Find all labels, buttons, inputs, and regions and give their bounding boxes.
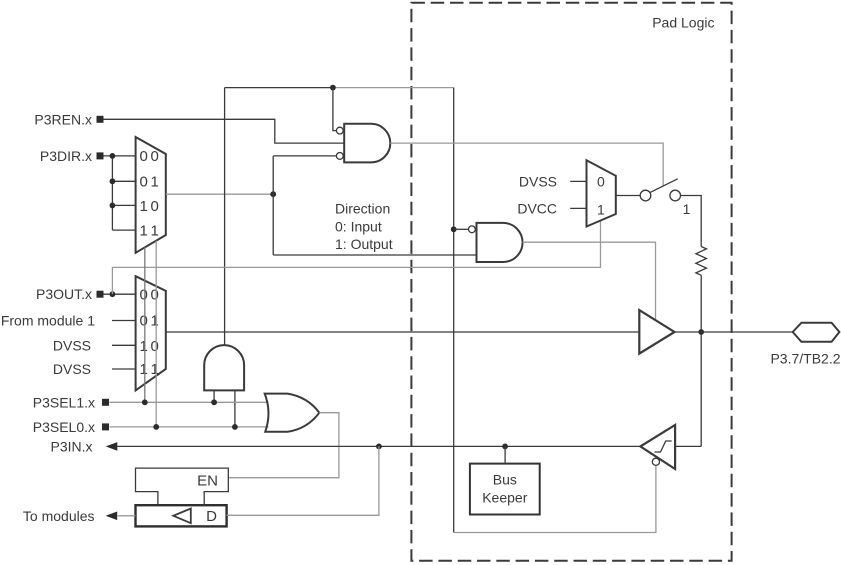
svg-text:Bus: Bus <box>493 472 517 488</box>
EN register box <box>136 468 229 505</box>
wire P3IN.x line (Schmitt output) <box>117 445 640 447</box>
svg-text:DVSS: DVSS <box>519 173 557 189</box>
switch contact left <box>640 190 651 201</box>
svg-text:DVSS: DVSS <box>53 338 91 354</box>
junction P3SEL0 at AND U5 <box>232 424 238 430</box>
wire U5 input B stub <box>234 390 236 427</box>
wire Bus Keeper stub <box>504 446 506 463</box>
switch contact right <box>670 190 681 201</box>
pin square P3SEL1.x <box>102 399 109 406</box>
wire From module 1 stub <box>112 320 136 322</box>
NAND U1 (3-input AND, bubbled inputs) body <box>344 124 390 163</box>
junction P3SEL0 at select vertical <box>153 424 159 430</box>
wire P3DIR.x stub to mux U3 input 00 <box>103 155 136 157</box>
wire DVSS stub to mux U7 <box>570 180 586 182</box>
bubble Schmitt enable <box>652 458 659 465</box>
wire top net to NAND U1 top bubble <box>333 88 337 131</box>
Pad Logic dashed boundary <box>411 3 731 561</box>
mux U3 direction-select body <box>136 137 166 253</box>
svg-text:From module 1: From module 1 <box>1 313 95 329</box>
wire DVSS stub row 10 <box>112 344 136 346</box>
wire switch to resistor <box>681 196 702 247</box>
junction P3IN at D register <box>376 444 382 450</box>
wire mux U4 output to output buffer <box>166 331 640 333</box>
wire P3SEL1 select vertical through muxes <box>144 247 146 402</box>
wire U5 input A stub <box>213 390 215 402</box>
pin square P3OUT.x <box>97 291 104 298</box>
wire AND U5 output vertical <box>224 88 226 346</box>
text Direction legend <box>335 201 393 253</box>
junction pad node <box>698 329 704 335</box>
svg-text:0 0: 0 0 <box>140 148 159 165</box>
svg-text:P3.7/TB2.2: P3.7/TB2.2 <box>770 351 840 367</box>
junction P3SEL1 at select vertical <box>142 399 148 405</box>
svg-text:1: 1 <box>597 201 605 217</box>
wire select net long vertical <box>453 88 455 533</box>
junction P3OUT node <box>110 291 116 297</box>
output buffer U8 <box>639 310 674 354</box>
switch blade <box>650 179 678 193</box>
NAND U2 (2-input AND, bubbled input) body <box>477 223 523 262</box>
bubble U1 input C <box>336 153 343 160</box>
svg-text:P3SEL1.x: P3SEL1.x <box>33 394 95 410</box>
pin square P3SEL0.x <box>102 423 109 430</box>
wire P3SEL0 select vertical through muxes <box>155 241 157 427</box>
junction P3DIR row 10 <box>110 203 116 209</box>
wire DVCC stub to mux U7 <box>570 207 586 209</box>
svg-text:DVSS: DVSS <box>53 361 91 377</box>
svg-text:Pad Logic: Pad Logic <box>652 15 714 31</box>
wire D register output from P3IN <box>227 446 379 515</box>
svg-text:0 1: 0 1 <box>140 173 159 190</box>
junction select net at NAND U2 <box>451 226 457 232</box>
wire P3SEL1.x line <box>110 401 269 403</box>
svg-text:P3OUT.x: P3OUT.x <box>36 286 92 302</box>
svg-text:1 1: 1 1 <box>140 222 159 239</box>
svg-text:Keeper: Keeper <box>482 490 527 506</box>
bubble U1 input A <box>336 127 343 134</box>
D register box <box>136 505 227 526</box>
svg-text:0: 0 <box>597 173 605 189</box>
Bus Keeper box <box>470 464 540 515</box>
svg-text:P3IN.x: P3IN.x <box>50 438 92 454</box>
svg-text:EN: EN <box>197 472 218 489</box>
junction P3IN at Bus Keeper <box>502 444 508 450</box>
svg-text:0: Input: 0: Input <box>335 218 382 234</box>
wire U1 output to switch blade <box>390 143 663 185</box>
hysteresis symbol <box>655 441 672 452</box>
junction direction node <box>270 191 276 197</box>
wire direction signal vertical to NAND inputs <box>273 156 476 255</box>
arrow To modules <box>106 512 118 521</box>
svg-text:Direction: Direction <box>335 201 390 217</box>
clock triangle in D register <box>173 509 191 524</box>
pad P3.7/TB2.2 hexagon <box>793 323 840 342</box>
wire U6 output to EN register <box>228 413 339 478</box>
svg-text:P3SEL0.x: P3SEL0.x <box>33 419 95 435</box>
wire to NAND U2 bubble <box>454 228 469 230</box>
bubble U2 input A <box>469 226 476 233</box>
arrow P3IN.x <box>106 442 118 451</box>
wire P3OUT to pull-direction mux select <box>112 221 600 295</box>
svg-text:P3REN.x: P3REN.x <box>34 111 92 127</box>
svg-text:D: D <box>206 508 217 525</box>
wire U2 output to buffer enable <box>523 242 656 320</box>
svg-text:P3DIR.x: P3DIR.x <box>40 148 92 164</box>
wire P3OUT.x stub to mux U4 input 00 <box>103 293 136 295</box>
AND U5 (P3SEL AND gate) body <box>204 345 244 390</box>
svg-text:1: Output: 1: Output <box>335 236 393 252</box>
mux U4 output-select body <box>136 276 166 390</box>
wire resistor to pad node and Schmitt input <box>675 275 701 446</box>
junction P3DIR row 01 <box>110 178 116 184</box>
pin square P3DIR.x <box>97 152 104 159</box>
wire P3DIR.x vertical distribution <box>111 156 113 230</box>
svg-text:DVCC: DVCC <box>517 200 557 216</box>
wire select net to Schmitt enable <box>454 465 656 532</box>
svg-text:1: 1 <box>683 201 691 217</box>
wire to mux U3 input 01 <box>112 180 135 182</box>
junction top net <box>330 85 336 91</box>
wire to mux U3 input 10 <box>112 204 135 206</box>
OR gate U6 body <box>265 394 320 432</box>
wire to mux U3 input 11 <box>112 229 135 231</box>
svg-text:To modules: To modules <box>23 508 95 524</box>
svg-text:1 0: 1 0 <box>140 198 159 215</box>
wire DVSS stub row 11 <box>112 368 136 370</box>
resistor R1 <box>696 247 707 276</box>
wire mux U3 output (direction signal) <box>166 193 273 195</box>
wire buffer output to pad <box>675 331 793 333</box>
wire P3REN.x to NAND U1 middle input <box>103 119 344 143</box>
junction P3DIR row 00 <box>110 153 116 159</box>
wire top net gray segment <box>333 87 454 89</box>
wire mux U7 output to switch <box>616 195 640 197</box>
junction P3SEL1 at AND U5 <box>211 399 217 405</box>
wire P3SEL0.x line <box>110 426 269 428</box>
wire To modules from D register <box>118 515 136 517</box>
Schmitt trigger U9 body <box>640 425 675 469</box>
wire top net from AND U5 output <box>225 87 333 89</box>
mux U7 pull resistor select body <box>587 160 616 226</box>
pin square P3REN.x <box>97 116 104 123</box>
